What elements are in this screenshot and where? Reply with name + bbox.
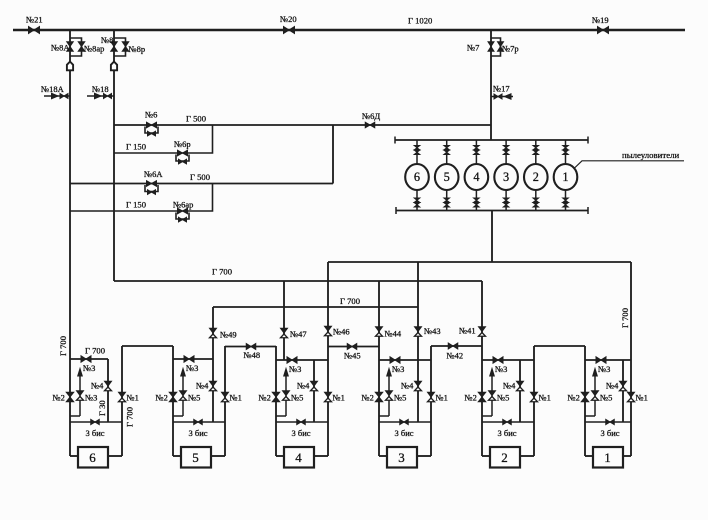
unit 4 valve №2 [272, 392, 280, 397]
wire line A Г 700 [328, 261, 631, 263]
svg-text:2: 2 [533, 170, 539, 184]
unit 6 top line with valve №3 [70, 358, 108, 360]
svg-text:2: 2 [501, 450, 508, 465]
unit 3 valve №2 [375, 392, 383, 397]
wire feed x213 valve №49 [212, 307, 214, 422]
svg-text:Г 500: Г 500 [186, 114, 206, 124]
wire Г 500 line №6А [70, 183, 333, 185]
unit 1 3 бис line [585, 421, 631, 423]
wire link x333 [332, 125, 334, 184]
wire arch unit6-unit5 [122, 345, 173, 347]
dust collector 4 [475, 140, 477, 165]
svg-text:№8А: №8А [51, 43, 70, 53]
svg-text:№3: №3 [289, 364, 301, 374]
unit 1 arrow line with valve №5 [594, 371, 596, 416]
svg-text:№6ар: №6ар [173, 200, 193, 210]
svg-text:1: 1 [604, 450, 611, 465]
valve №6Д [365, 122, 370, 128]
wire link with valve №48 [225, 346, 276, 348]
svg-text:5: 5 [192, 450, 199, 465]
svg-text:№19: №19 [592, 15, 609, 25]
unit 4 3 бис line [276, 421, 328, 423]
svg-text:№6Д: №6Д [362, 111, 380, 121]
svg-text:3 бис: 3 бис [292, 428, 311, 438]
svg-text:№2: №2 [465, 393, 477, 403]
unit 3 valve №4 line [415, 381, 422, 386]
dust collector 2 [535, 140, 537, 165]
svg-text:№8ар: №8ар [84, 44, 104, 54]
svg-text:№5: №5 [600, 393, 612, 403]
svg-text:3 бис: 3 бис [601, 428, 620, 438]
svg-text:№5: №5 [497, 393, 509, 403]
svg-text:№18А: №18А [41, 84, 65, 94]
svg-text:№4: №4 [196, 381, 209, 391]
wire main bus Г 1020 [13, 29, 685, 31]
unit 1 valve №4 line [622, 360, 624, 422]
svg-text:№45: №45 [344, 351, 361, 361]
svg-text:№2: №2 [568, 393, 580, 403]
svg-text:3: 3 [398, 450, 405, 465]
wire feed x482 valve №41 [481, 281, 483, 456]
unit 2 top line with valve №3 [482, 359, 534, 361]
svg-text:№5: №5 [394, 393, 406, 403]
svg-text:№1: №1 [539, 393, 551, 403]
svg-text:№18: №18 [92, 84, 109, 94]
unit 6 valve №2 [66, 392, 74, 397]
unit 3 arrow line with valve №5 [388, 371, 390, 416]
svg-text:№47: №47 [290, 329, 307, 339]
unit 3 3 бис line [379, 421, 431, 423]
valve №8 with bypass №8р [114, 38, 126, 56]
svg-text:№1: №1 [333, 393, 345, 403]
unit 6 arrow line with valve №3 [79, 371, 81, 416]
blowoff valve №18 [87, 95, 114, 97]
unit 2 3 бис line [482, 421, 534, 423]
unit 6 box 6 [70, 455, 78, 457]
svg-text:№1: №1 [230, 393, 242, 403]
wire Г 150 bypass №6р [114, 125, 213, 153]
unit 6 3 бис line [70, 421, 122, 423]
svg-text:№2: №2 [259, 393, 271, 403]
wire line B Г 700 [114, 280, 482, 282]
wire Г 150 bypass №6ар [70, 184, 213, 212]
unit 1 top line with valve №3 [585, 359, 631, 361]
svg-text:4: 4 [295, 450, 302, 465]
wire Г 500 line №6 [114, 124, 491, 126]
svg-text:пылеуловители: пылеуловители [622, 150, 679, 160]
valve №6р [178, 150, 183, 156]
unit 3 box 3 [379, 455, 387, 457]
dust collector 5 [446, 140, 448, 165]
unit 5 valve №2 [169, 392, 177, 397]
svg-text:№8р: №8р [129, 44, 146, 54]
svg-text:№1: №1 [636, 393, 648, 403]
valve №8А with bypass №8ар [70, 38, 82, 56]
unit 4 box 4 [276, 455, 284, 457]
svg-text:Г 150: Г 150 [126, 200, 146, 210]
svg-text:№2: №2 [53, 393, 65, 403]
wire dust top bus [395, 139, 588, 141]
svg-text:1: 1 [562, 170, 568, 184]
svg-text:№6А: №6А [144, 169, 163, 179]
svg-text:3: 3 [503, 170, 509, 184]
unit 5 3 бис line [173, 421, 225, 423]
svg-text:Г 700: Г 700 [620, 308, 630, 328]
wire riser x114 [113, 30, 115, 281]
svg-text:№4: №4 [297, 381, 310, 391]
svg-text:Г 1020: Г 1020 [408, 16, 432, 26]
svg-text:№7: №7 [467, 43, 479, 53]
wire riser x491 [490, 30, 492, 140]
svg-text:№4: №4 [606, 381, 619, 391]
unit 4 valve №4 line [313, 360, 315, 422]
unit 1 box 1 [585, 455, 593, 457]
svg-text:№21: №21 [26, 15, 43, 25]
unit 4 arrow line with valve №5 [285, 371, 287, 416]
unit 5 arrow line with valve №5 [182, 371, 184, 416]
svg-text:№2: №2 [362, 393, 374, 403]
unit 1 №1 vertical and valve №1 [628, 392, 635, 397]
wire dust drop riser [491, 211, 493, 263]
label пылеуловители leader [574, 161, 684, 169]
svg-text:№3: №3 [186, 363, 198, 373]
svg-text:№2: №2 [156, 393, 168, 403]
unit 3 top line with valve №3 [379, 359, 431, 361]
unit 5 left vertical [172, 346, 174, 456]
unit 2 valve №4 line [519, 360, 521, 422]
unit 2 №1 vertical and valve №1 [533, 346, 535, 456]
unit 1 left vertical [584, 346, 586, 456]
svg-text:№44: №44 [385, 329, 402, 339]
svg-text:№4: №4 [91, 381, 104, 391]
svg-text:№1: №1 [127, 393, 139, 403]
pentagon seal x114 [111, 62, 117, 71]
svg-text:№3: №3 [83, 363, 95, 373]
wire feed x418 valve №43 [417, 262, 419, 422]
unit 2 arrow line with valve №5 [491, 371, 493, 416]
valve №19 [598, 27, 604, 34]
unit 2 box 2 [482, 455, 490, 457]
svg-text:№4: №4 [401, 381, 414, 391]
svg-text:Г 700: Г 700 [58, 336, 68, 356]
svg-text:№1: №1 [436, 393, 448, 403]
svg-text:№48: №48 [244, 350, 261, 360]
svg-text:№41: №41 [459, 326, 476, 336]
svg-text:№3: №3 [392, 364, 404, 374]
svg-text:Г 700: Г 700 [125, 407, 135, 427]
unit 6 valve №4 line [107, 359, 109, 422]
svg-text:№17: №17 [493, 84, 510, 94]
unit 4 №1 vertical and valve №1 [325, 392, 332, 397]
blowoff valve №17 [491, 96, 513, 98]
valve №6ар [178, 208, 183, 214]
svg-text:Г 500: Г 500 [190, 172, 210, 182]
wire arch unit2-unit1 [534, 345, 585, 347]
blowoff valve №18А [44, 95, 70, 97]
unit 5 valve №4 line [210, 381, 217, 386]
svg-text:5: 5 [444, 170, 450, 184]
svg-text:№3: №3 [598, 364, 610, 374]
wire line C Г 700 [213, 306, 418, 308]
svg-text:6: 6 [89, 450, 96, 465]
svg-text:№46: №46 [333, 327, 350, 337]
svg-text:3 бис: 3 бис [498, 428, 517, 438]
svg-text:3 бис: 3 бис [86, 428, 105, 438]
svg-text:6: 6 [414, 170, 420, 184]
svg-text:Г 700: Г 700 [85, 346, 105, 356]
unit 5 box 5 [173, 455, 181, 457]
svg-text:Г 700: Г 700 [340, 296, 360, 306]
svg-text:№5: №5 [188, 393, 200, 403]
valve №20 [284, 27, 290, 34]
dust collector 1 [565, 140, 567, 165]
svg-text:Г 150: Г 150 [126, 142, 146, 152]
wire link with valve №42 [431, 345, 482, 347]
unit 3 №1 vertical and valve №1 [430, 346, 432, 456]
svg-text:№7р: №7р [502, 44, 519, 54]
unit 4 left vertical [275, 346, 277, 456]
unit 1 valve №2 [581, 392, 589, 397]
wire feed x328 valve №46 [327, 262, 329, 456]
svg-text:4: 4 [473, 170, 479, 184]
valve №6А [147, 181, 152, 187]
svg-text:№49: №49 [220, 330, 237, 340]
svg-text:№43: №43 [424, 326, 441, 336]
svg-text:№5: №5 [291, 393, 303, 403]
unit 5 №1 vertical and valve №1 [224, 346, 226, 456]
unit 4 top line with valve №3 [276, 359, 328, 361]
svg-text:3 бис: 3 бис [189, 428, 208, 438]
valve №6 [147, 122, 152, 128]
pentagon seal x70 [67, 62, 73, 71]
svg-text:№20: №20 [280, 14, 297, 24]
valve №21 [29, 27, 35, 34]
svg-text:№42: №42 [447, 351, 464, 361]
wire right riser x631 Г 700 [630, 262, 632, 456]
svg-text:№6: №6 [145, 110, 157, 120]
svg-text:№8: №8 [101, 35, 113, 45]
wire feed x379 valve №44 [378, 281, 380, 456]
unit 6 №1 vertical and valve №1 [121, 346, 123, 456]
unit 2 valve №2 [478, 392, 486, 397]
svg-text:Г 700: Г 700 [212, 267, 232, 277]
wire dust bottom bus [396, 210, 588, 212]
svg-text:№3: №3 [85, 393, 97, 403]
wire riser x70 [69, 30, 71, 456]
wire feed x284 valve №47 [283, 281, 285, 360]
svg-text:№3: №3 [495, 364, 507, 374]
dust collector 3 [505, 140, 507, 165]
svg-text:№6р: №6р [174, 139, 191, 149]
wire link with valve №45 [328, 346, 379, 348]
svg-text:Г 30: Г 30 [97, 400, 107, 416]
dust collector 6 [416, 140, 418, 165]
valve №7 with bypass №7р [491, 38, 501, 56]
svg-text:№4: №4 [503, 381, 516, 391]
unit 5 top line with valve №3 [173, 358, 213, 360]
svg-text:3 бис: 3 бис [395, 428, 414, 438]
